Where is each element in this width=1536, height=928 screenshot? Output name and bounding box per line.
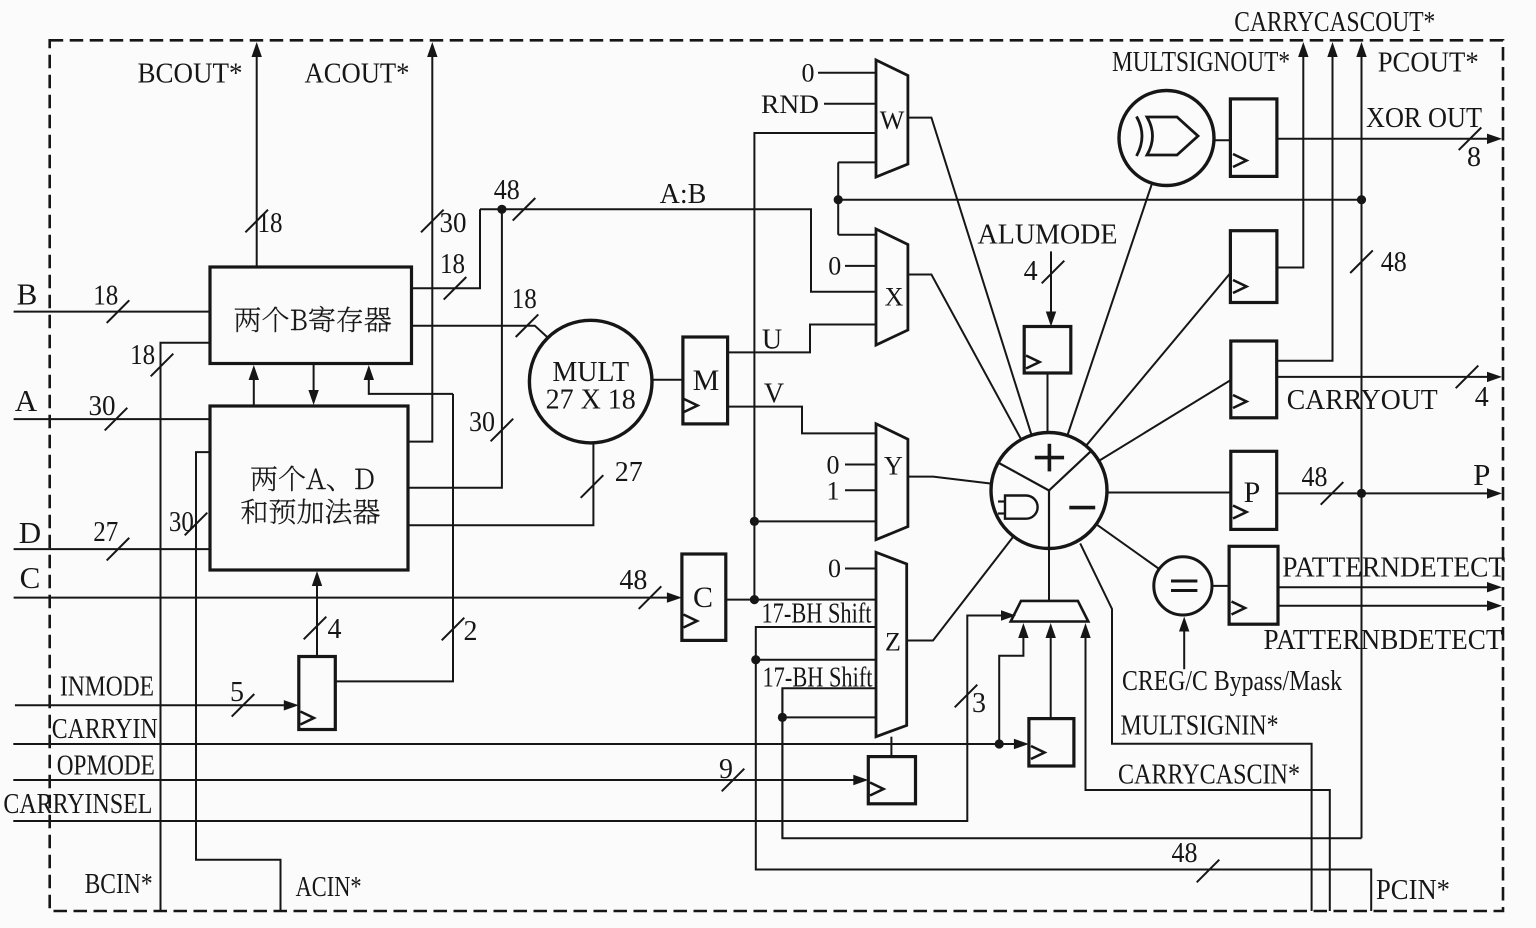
svg-text:PATTERNDETECT: PATTERNDETECT [1282, 553, 1505, 584]
svg-text:D: D [19, 515, 41, 550]
svg-text:V: V [764, 379, 784, 410]
bus width 48 on PCIN [1197, 860, 1220, 883]
register CARRYOUT [1231, 341, 1277, 418]
register CARRYIN [1029, 719, 1074, 766]
svg-text:0: 0 [828, 252, 841, 281]
svg-text:PCIN*: PCIN* [1376, 875, 1450, 906]
wire B reg output to A:B bus [412, 209, 481, 288]
svg-text:PATTERNBDETECT: PATTERNBDETECT [1264, 625, 1503, 656]
wire Z mux select from OPMODE reg [890, 737, 892, 757]
wire A/D output to MULT [408, 443, 593, 525]
XOR gate circle [1119, 91, 1214, 186]
wire MULTSIGNIN input [1080, 543, 1311, 911]
svg-text:PCOUT*: PCOUT* [1378, 48, 1479, 79]
mux Z [876, 552, 907, 736]
label pre-adder (CJK line 2) [241, 499, 379, 525]
bus width 4 on INMODE-A/D [304, 617, 327, 640]
wire OPMODE input [13, 779, 861, 781]
node C bus to Y junction [750, 517, 759, 526]
ALU logic AND gate glyph [1005, 496, 1038, 519]
register PATTERNDETECT [1229, 546, 1278, 624]
wire ALUMODE input [1050, 251, 1052, 322]
wire ALU to comparator [1096, 524, 1159, 569]
mux Y [876, 424, 908, 540]
svg-text:3: 3 [972, 688, 986, 719]
ALU divider bottom [1048, 491, 1050, 549]
comparator equals circle [1154, 557, 1212, 615]
svg-text:18: 18 [512, 284, 537, 315]
wire P feedback horizontal [838, 199, 1361, 201]
svg-text:Z: Z [885, 628, 901, 657]
bus width 27 on D [107, 538, 130, 561]
svg-text:A: A [15, 383, 38, 418]
svg-text:18: 18 [93, 281, 118, 312]
wire BCIN cascade input [161, 343, 210, 911]
svg-text:CARRYINSEL: CARRYINSEL [3, 789, 152, 820]
mux X [876, 229, 908, 345]
wire carry mux to ALU [1048, 549, 1050, 601]
svg-text:CARRYCASCOUT*: CARRYCASCOUT* [1234, 7, 1435, 38]
node PCIN shift junction [751, 655, 760, 664]
wire PCOUT vertical bus [1361, 45, 1363, 838]
wire A path up to A:B [408, 209, 502, 488]
register ALUMODE [1024, 327, 1071, 374]
svg-text:4: 4 [1475, 382, 1489, 413]
wire Y input 0 [845, 464, 876, 466]
svg-text:48: 48 [1302, 462, 1328, 493]
node C output junction [750, 595, 759, 604]
wire C bus vertical [754, 133, 876, 600]
mux carry-in select [1011, 601, 1089, 622]
bus width 48 on P [1321, 482, 1344, 505]
wire PCIN bus vertical [756, 627, 1371, 911]
bus width 9 on OPMODE [722, 769, 745, 792]
svg-text:B: B [17, 277, 38, 312]
ALU circle [991, 433, 1107, 549]
wire CARRYOUT output [1277, 376, 1496, 378]
wire B reg output to MULT [412, 326, 548, 337]
svg-text:4: 4 [1024, 256, 1038, 287]
svg-text:U: U [762, 325, 782, 356]
wire comparator to pattern reg [1212, 585, 1229, 587]
ALU plus sign [1035, 456, 1064, 460]
wire CREG mask arrow [1183, 620, 1185, 669]
svg-text:CARRYIN: CARRYIN [52, 714, 158, 745]
svg-text:1: 1 [827, 477, 840, 506]
svg-text:18: 18 [130, 340, 155, 371]
node P feedback junction [834, 195, 843, 204]
svg-text:9: 9 [719, 754, 733, 785]
register M [683, 337, 728, 424]
wire D input [14, 548, 210, 550]
wire Z input 0 [845, 568, 876, 570]
wire CARRYCASCOUT output [1277, 45, 1303, 268]
wire XOR OUT output [1277, 138, 1496, 140]
svg-text:17-BH Shift: 17-BH Shift [762, 599, 872, 630]
wire Y input 1 [845, 489, 876, 491]
wire CARRYIN bypass [999, 627, 1023, 744]
register OPMODE [868, 757, 915, 804]
bus width 18 on BCOUT [245, 210, 268, 233]
svg-text:48: 48 [619, 565, 647, 596]
wire ACIN cascade input [196, 452, 281, 911]
wire P bus to Z shifter [782, 688, 1361, 838]
wire PATTERNDETECT output [1278, 586, 1496, 588]
wire ALU to P reg [1107, 492, 1231, 494]
wire X input 0 [845, 265, 876, 267]
wire Z mux output [907, 536, 1014, 640]
svg-text:27: 27 [615, 457, 643, 488]
svg-text:C: C [693, 581, 713, 614]
wire B input [14, 311, 210, 313]
wire P feedback to Z [782, 688, 876, 838]
bus width 5 on INMODE [232, 694, 255, 717]
node P output junction [1357, 489, 1366, 498]
wire ALU to CARRYCASCOUT reg [1086, 273, 1230, 446]
label dual A D (CJK line 1) [251, 466, 373, 491]
wire ALUMODE reg to ALU [1047, 373, 1049, 433]
bus width 4 on ALUMODE [1042, 261, 1065, 284]
svg-text:X: X [885, 283, 904, 312]
svg-text:MULT: MULT [552, 357, 629, 388]
svg-text:W: W [880, 106, 905, 135]
svg-text:INMODE: INMODE [60, 672, 154, 703]
node A:B junction [497, 205, 506, 214]
wire MULT to M register [652, 379, 683, 381]
svg-text:30: 30 [89, 391, 116, 422]
wire CARRYIN reg to mux [1050, 627, 1052, 719]
wire A/D to B up arrow [253, 368, 255, 406]
bus width 18 on B to MULT [516, 314, 539, 337]
bus width 8 on XOR OUT [1459, 128, 1482, 151]
svg-text:BCIN*: BCIN* [85, 869, 153, 900]
svg-text:OPMODE: OPMODE [57, 751, 155, 782]
svg-text:48: 48 [1172, 838, 1198, 869]
block dual A D and pre-adder [210, 406, 408, 570]
svg-text:ACOUT*: ACOUT* [305, 59, 410, 90]
svg-text:ACIN*: ACIN* [296, 872, 362, 903]
svg-text:MULTSIGNOUT*: MULTSIGNOUT* [1112, 47, 1290, 78]
node P shift junction [778, 713, 787, 722]
svg-text:A:B: A:B [660, 179, 707, 210]
register block dual B registers [210, 267, 412, 364]
svg-text:BCOUT*: BCOUT* [138, 59, 243, 90]
ALU divider left [998, 463, 1049, 491]
register XOR output [1230, 99, 1277, 176]
bus width 48 on PCOUT [1350, 250, 1373, 273]
svg-text:4: 4 [328, 614, 342, 645]
bus width 18 on B reg output [444, 277, 467, 300]
wire CARRYCASCIN input [1086, 627, 1330, 911]
wire V partial product [728, 407, 876, 434]
wire INMODE branch to B box up arrow [369, 368, 453, 394]
wire CARRYINSEL input [13, 616, 1008, 822]
wire PATTERNBDETECT output [1278, 605, 1496, 607]
bus width 4 on CARRYOUT [1456, 366, 1479, 389]
wire W input 0 [818, 72, 876, 74]
label dual B registers (CJK) [235, 306, 391, 332]
svg-text:ALUMODE: ALUMODE [978, 219, 1118, 250]
bus width 30 on A [105, 408, 128, 431]
wire A:B bus [480, 209, 876, 291]
bus width 30 on ACIN [185, 513, 208, 536]
bus width 48 on A:B [513, 198, 536, 221]
svg-text:27: 27 [93, 517, 118, 548]
wire PCIN shift to Z [756, 659, 876, 661]
wire XOR to XOR register [1213, 139, 1230, 141]
wire ALU to CARRYOUT reg [1099, 380, 1231, 461]
svg-text:P: P [1473, 457, 1490, 492]
bus width 48 on C [639, 586, 662, 609]
wire P feedback stub to W and X [838, 161, 876, 163]
wire BCOUT* cascade output [256, 45, 258, 267]
wire CARRYOUT cascade up [1277, 45, 1333, 361]
svg-text:8: 8 [1467, 142, 1481, 173]
svg-text:CREG/C Bypass/Mask: CREG/C Bypass/Mask [1122, 666, 1342, 697]
wire INMODE input [15, 704, 290, 706]
wire B to A/D down arrow [313, 364, 315, 402]
wire P output [1277, 492, 1496, 494]
register C [682, 554, 726, 640]
wire ACOUT* cascade output [408, 45, 432, 442]
bus width 18 on B [107, 300, 130, 323]
svg-text:Y: Y [884, 452, 903, 481]
svg-text:48: 48 [494, 175, 520, 206]
svg-text:C: C [20, 560, 41, 595]
ALU divider right [1049, 451, 1091, 491]
svg-text:P: P [1244, 476, 1261, 509]
XOR gate glyph [1137, 117, 1143, 157]
bus width 2 on INMODE-B [442, 618, 465, 641]
wire W mux output [908, 118, 1032, 436]
wire C reg output [726, 599, 876, 601]
ALU minus sign [1069, 506, 1095, 510]
register CARRYCASCOUT [1230, 231, 1277, 303]
svg-text:18: 18 [440, 249, 465, 280]
svg-text:RND: RND [761, 90, 819, 119]
wire C bus to Y mux [754, 520, 876, 522]
svg-text:0: 0 [827, 451, 840, 480]
svg-text:M: M [693, 364, 720, 397]
svg-text:XOR OUT: XOR OUT [1366, 103, 1482, 134]
node CARRYIN junction [995, 739, 1004, 748]
wire Y mux output [908, 477, 992, 484]
equals sign [1171, 580, 1197, 583]
svg-text:18: 18 [258, 208, 283, 239]
register P [1231, 451, 1277, 529]
wire A input [14, 418, 210, 420]
wire C input [14, 597, 676, 599]
bus width 18 on BCIN [151, 354, 174, 377]
svg-text:CARRYCASCIN*: CARRYCASCIN* [1118, 760, 1300, 791]
bus width 30 on A path [491, 419, 514, 442]
multiplier MULT 27x18 circle [529, 320, 652, 443]
bus width 30 on ACOUT [421, 210, 444, 233]
svg-text:27 X 18: 27 X 18 [546, 385, 636, 416]
wire INMODE reg to B box path [335, 394, 453, 682]
wire ALU to XOR [1067, 184, 1151, 435]
svg-text:MULTSIGNIN*: MULTSIGNIN* [1121, 711, 1279, 742]
mux W [876, 60, 908, 177]
svg-text:0: 0 [828, 554, 841, 583]
wire INMODE reg to A/D box [316, 574, 318, 657]
wire CARRYIN input [13, 743, 1022, 745]
svg-text:2: 2 [464, 616, 478, 647]
wire U partial product [728, 325, 876, 353]
register INMODE [299, 657, 336, 730]
wire W input RND [824, 103, 876, 105]
node P feedback top junction [1357, 195, 1366, 204]
bus width 3 on CARRYINSEL [955, 685, 978, 708]
wire P shift to Z [782, 716, 876, 718]
bus width 27 on AD to MULT [581, 475, 604, 498]
svg-text:30: 30 [169, 507, 194, 538]
svg-text:30: 30 [440, 208, 467, 239]
svg-text:5: 5 [230, 677, 244, 708]
svg-text:30: 30 [469, 407, 495, 438]
svg-text:48: 48 [1381, 247, 1407, 278]
svg-text:0: 0 [802, 59, 815, 88]
wire X mux output [908, 275, 1021, 440]
